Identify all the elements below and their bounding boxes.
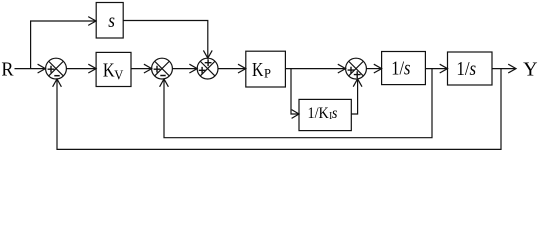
block integrator 1/s (first) bbox=[382, 52, 426, 85]
svg-text:1/: 1/ bbox=[391, 57, 405, 79]
svg-text:Y: Y bbox=[523, 59, 537, 81]
wire: inner feedback from integrator 1 output down and back to S2 bbox=[164, 69, 432, 138]
svg-text:s: s bbox=[404, 57, 410, 79]
block KP bbox=[246, 51, 286, 87]
svg-text:1/K: 1/K bbox=[308, 105, 329, 122]
svg-text:P: P bbox=[264, 66, 271, 80]
wire: KV to summing junction S2 bbox=[131, 68, 151, 70]
wire: branch down from KP output to block 1/KIs bbox=[291, 69, 299, 114]
wire: outer feedback from output down and back to S1 bbox=[57, 69, 501, 150]
block integrator 1/s (second) bbox=[448, 52, 493, 85]
svg-text:1/: 1/ bbox=[456, 59, 470, 81]
wire: S4 to integrator block 1 bbox=[366, 68, 381, 70]
svg-text:K: K bbox=[103, 59, 115, 81]
wire: R to summing junction S1 bbox=[15, 68, 46, 70]
output label Y bbox=[523, 59, 537, 81]
wire: S1 to block KV bbox=[66, 68, 95, 70]
wire: integrator 1 to integrator 2 bbox=[425, 68, 447, 70]
block s (derivative) bbox=[96, 3, 123, 39]
svg-text:s: s bbox=[469, 59, 476, 81]
summing junction S4 bbox=[346, 58, 367, 79]
summing junction S2 bbox=[152, 58, 173, 79]
svg-text:R: R bbox=[1, 59, 13, 81]
svg-text:s: s bbox=[332, 105, 338, 122]
svg-text:K: K bbox=[252, 58, 263, 80]
wire: output of integrator 2 to Y bbox=[492, 68, 516, 70]
input label R bbox=[1, 59, 13, 81]
summing junction S1 bbox=[46, 58, 67, 79]
wire: branch up from R line to derivative block s bbox=[31, 21, 96, 69]
summing junction S3 bbox=[197, 58, 218, 79]
wire: s block output to summing junction S3 top bbox=[123, 21, 208, 58]
block 1/KIs (integral gain) bbox=[299, 99, 351, 130]
svg-text:V: V bbox=[114, 67, 123, 83]
block KV bbox=[96, 52, 131, 86]
wire: S3 to block KP bbox=[218, 68, 245, 70]
wire: S2 to summing junction S3 bbox=[172, 68, 196, 70]
svg-text:s: s bbox=[108, 10, 115, 33]
wire: 1/KIs output up to summing junction S4 bottom bbox=[351, 79, 357, 114]
wire: KP to summing junction S4 bbox=[285, 68, 345, 70]
